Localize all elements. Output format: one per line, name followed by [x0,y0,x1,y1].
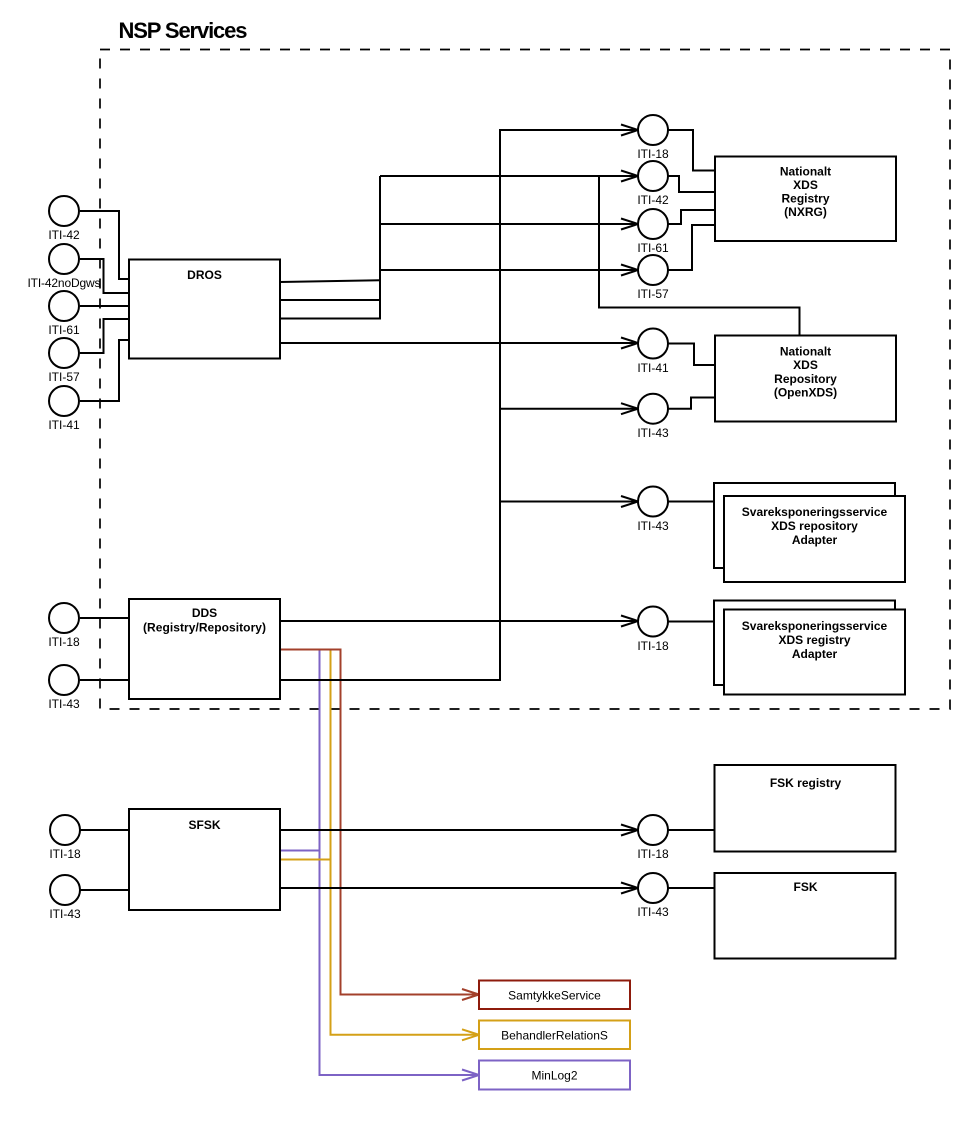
svg-text:ITI-42: ITI-42 [637,193,669,207]
svg-text:Adapter: Adapter [792,647,838,661]
svg-text:BehandlerRelationS: BehandlerRelationS [501,1029,608,1043]
svg-text:ITI-61: ITI-61 [48,323,80,337]
svg-text:XDS: XDS [793,178,818,192]
svg-text:ITI-57: ITI-57 [637,287,669,301]
svg-text:ITI-43: ITI-43 [49,907,81,921]
svg-text:FSK: FSK [794,880,818,894]
svg-text:ITI-43: ITI-43 [637,519,669,533]
svg-text:XDS repository: XDS repository [771,519,858,533]
svg-text:XDS: XDS [793,358,818,372]
svg-text:ITI-42: ITI-42 [48,228,80,242]
svg-text:ITI-41: ITI-41 [637,361,669,375]
svg-text:Nationalt: Nationalt [780,165,831,179]
svg-text:NSP Services: NSP Services [119,18,248,43]
svg-text:ITI-61: ITI-61 [637,241,669,255]
svg-text:Adapter: Adapter [792,533,838,547]
svg-text:(NXRG): (NXRG) [784,205,827,219]
svg-text:ITI-18: ITI-18 [637,147,669,161]
svg-text:Nationalt: Nationalt [780,345,831,359]
svg-text:DDS: DDS [192,606,217,620]
svg-text:ITI-43: ITI-43 [48,697,80,711]
svg-text:Repository: Repository [774,372,837,386]
svg-text:ITI-18: ITI-18 [637,639,669,653]
svg-text:SamtykkeService: SamtykkeService [508,989,601,1003]
svg-text:ITI-18: ITI-18 [49,847,81,861]
svg-text:ITI-18: ITI-18 [637,847,669,861]
svg-text:Svareksponeringsservice: Svareksponeringsservice [742,619,888,633]
svg-text:MinLog2: MinLog2 [531,1069,577,1083]
svg-text:XDS registry: XDS registry [778,633,850,647]
svg-text:SFSK: SFSK [188,818,220,832]
svg-text:ITI-41: ITI-41 [48,418,80,432]
svg-text:ITI-43: ITI-43 [637,905,669,919]
svg-text:(Registry/Repository): (Registry/Repository) [143,621,266,635]
svg-text:ITI-57: ITI-57 [48,370,80,384]
svg-text:Registry: Registry [781,192,829,206]
svg-text:FSK registry: FSK registry [770,776,842,790]
svg-text:ITI-18: ITI-18 [48,635,80,649]
svg-text:ITI-43: ITI-43 [637,426,669,440]
svg-text:(OpenXDS): (OpenXDS) [774,386,837,400]
svg-text:DROS: DROS [187,268,222,282]
svg-text:ITI-42noDgws: ITI-42noDgws [28,276,101,290]
svg-text:Svareksponeringsservice: Svareksponeringsservice [742,505,888,519]
